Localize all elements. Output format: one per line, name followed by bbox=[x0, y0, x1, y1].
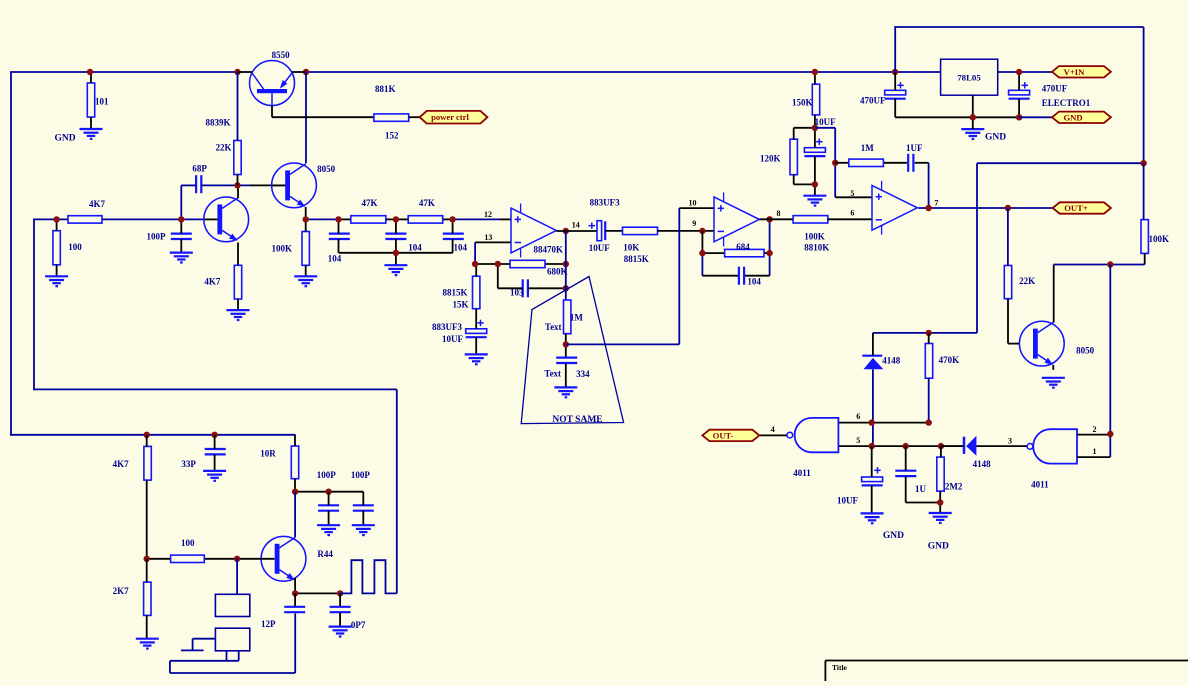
diode 4148 vertical bbox=[862, 333, 901, 446]
ground 2M2 bbox=[928, 513, 952, 552]
pin 1 label bbox=[1093, 447, 1097, 456]
svg-text:10R: 10R bbox=[260, 448, 276, 458]
resistor 47K first bbox=[351, 198, 386, 223]
svg-text:150K: 150K bbox=[792, 97, 813, 107]
svg-text:5: 5 bbox=[856, 436, 860, 445]
svg-text:8050: 8050 bbox=[317, 164, 336, 174]
svg-text:103: 103 bbox=[510, 288, 524, 298]
capacitor 100P osc first bbox=[317, 470, 339, 525]
junction dots regulator bbox=[1016, 69, 1022, 75]
wire U2 feedback bbox=[702, 219, 769, 275]
wire pin6 row bbox=[838, 422, 928, 424]
svg-text:8050: 8050 bbox=[1076, 346, 1095, 356]
text 8839K bbox=[206, 118, 231, 128]
capacitor 103 bbox=[498, 264, 566, 298]
wire 100K to pin6 bbox=[828, 218, 872, 220]
svg-text:8550: 8550 bbox=[272, 50, 291, 60]
pin 4 label bbox=[771, 425, 775, 434]
svg-text:88470K: 88470K bbox=[534, 245, 564, 255]
svg-text:1M: 1M bbox=[861, 143, 875, 153]
svg-text:4K7: 4K7 bbox=[113, 459, 130, 469]
junction dots collector row osc bbox=[292, 489, 298, 495]
pin 13 wire bbox=[475, 242, 511, 264]
wire 104 bottom bus bbox=[339, 252, 453, 254]
pin 3 label bbox=[1008, 437, 1012, 446]
capacitor 1U bbox=[895, 446, 940, 502]
text 10UF node bbox=[815, 117, 836, 127]
capacitor 334 bbox=[544, 358, 590, 388]
wire feedback row 680K bbox=[475, 263, 566, 265]
resistor 10K 8815K bbox=[623, 227, 658, 264]
junction dot 2M2 bottom bbox=[937, 499, 943, 505]
wire NAND1 output bbox=[760, 434, 787, 436]
power port flag power ctrl bbox=[420, 111, 488, 124]
wire 8050b collector row bbox=[1054, 265, 1145, 323]
transistor 8550 PNP bbox=[250, 50, 295, 117]
ground 8050b bbox=[1042, 378, 1065, 388]
junction dots 120K node bbox=[812, 125, 818, 131]
wire NAND2 feedback vertical bbox=[1109, 265, 1111, 435]
capacitor 104 U2 feedback bbox=[739, 267, 762, 287]
svg-text:470UF: 470UF bbox=[860, 95, 886, 105]
capacitor 470UF first electrolytic bbox=[860, 72, 906, 117]
wire 100 row bbox=[147, 558, 275, 560]
svg-text:14: 14 bbox=[572, 221, 580, 230]
junction dot base node 22K bbox=[234, 182, 240, 188]
svg-text:883UF3: 883UF3 bbox=[590, 198, 620, 208]
wire 78L05 out to V+IN bbox=[998, 71, 1053, 73]
svg-text:3: 3 bbox=[1008, 437, 1012, 446]
svg-text:22K: 22K bbox=[216, 143, 232, 153]
wire input row bbox=[33, 218, 217, 220]
svg-text:4K7: 4K7 bbox=[89, 199, 106, 209]
svg-text:10UF: 10UF bbox=[589, 243, 610, 253]
svg-text:100K: 100K bbox=[804, 232, 825, 242]
text 4011 second bbox=[1031, 480, 1049, 490]
svg-text:8: 8 bbox=[777, 209, 781, 218]
svg-text:OUT+: OUT+ bbox=[1064, 203, 1088, 213]
svg-text:47K: 47K bbox=[362, 198, 378, 208]
capacitor 104 third bbox=[443, 219, 468, 252]
svg-text:12P: 12P bbox=[261, 619, 276, 629]
svg-text:68P: 68P bbox=[192, 164, 207, 174]
wire oscillator output drop bbox=[396, 389, 398, 593]
transistor 8050 second bbox=[1019, 321, 1094, 366]
capacitor 10UF 120K electrolytic bbox=[804, 128, 825, 196]
svg-text:120K: 120K bbox=[760, 154, 781, 164]
resistor 10R bbox=[260, 435, 298, 492]
capacitor 68P bbox=[181, 164, 285, 220]
svg-text:7: 7 bbox=[934, 199, 938, 208]
pin stubs 8550 bbox=[238, 71, 307, 73]
pin 5 NAND label bbox=[856, 436, 860, 445]
svg-text:10UF: 10UF bbox=[837, 496, 858, 506]
wire top loop bbox=[894, 27, 1143, 163]
svg-text:OUT-: OUT- bbox=[713, 430, 734, 440]
junction dots osc supply row bbox=[144, 432, 150, 438]
svg-text:2M2: 2M2 bbox=[945, 482, 963, 492]
wire square wave bbox=[340, 560, 397, 593]
junction dot 470K top bbox=[926, 330, 932, 336]
resistor 150K bbox=[792, 72, 820, 128]
junction dots U2 bbox=[699, 250, 705, 256]
svg-text:10: 10 bbox=[689, 199, 697, 208]
svg-text:Title: Title bbox=[832, 663, 848, 672]
svg-text:4011: 4011 bbox=[793, 468, 811, 478]
wire crystal stub bbox=[181, 639, 215, 651]
svg-text:4148: 4148 bbox=[882, 356, 901, 366]
svg-text:GND: GND bbox=[883, 531, 904, 541]
svg-text:334: 334 bbox=[576, 369, 590, 379]
pin 8050b emitter bbox=[1052, 365, 1054, 370]
svg-text:10UF: 10UF bbox=[442, 334, 463, 344]
junction dots pin6 row bbox=[869, 419, 875, 425]
resistor 4K7 osc bbox=[113, 435, 152, 559]
svg-text:104: 104 bbox=[328, 254, 342, 264]
resistor 8815K 15K bbox=[443, 264, 480, 321]
svg-text:470UF: 470UF bbox=[1042, 84, 1068, 94]
svg-text:9: 9 bbox=[692, 219, 696, 228]
power port flag V+IN bbox=[1052, 66, 1111, 77]
NAND gate 4011 first bbox=[787, 418, 839, 452]
svg-text:1M: 1M bbox=[570, 313, 584, 323]
ground under 10UF bbox=[465, 354, 488, 364]
pin 14 label bbox=[572, 221, 580, 230]
wire input branch vertical bbox=[33, 219, 397, 389]
wire to op-amp2 pin10 bbox=[566, 208, 714, 344]
junction dots U1 feedback bbox=[472, 261, 478, 267]
polygon NOT SAME annotation bbox=[521, 277, 623, 426]
svg-text:152: 152 bbox=[385, 131, 399, 141]
svg-text:1: 1 bbox=[1093, 447, 1097, 456]
ground under 101 bbox=[80, 129, 103, 139]
svg-text:33P: 33P bbox=[181, 459, 196, 469]
pin 10 label bbox=[689, 199, 697, 208]
capacitor 470UF ELECTRO1 electrolytic bbox=[1009, 72, 1091, 117]
svg-text:8839K: 8839K bbox=[206, 118, 231, 128]
capacitor 33P bbox=[181, 435, 225, 471]
resistor 152 (881K) bbox=[374, 84, 409, 141]
wire 8550 base row bbox=[272, 116, 374, 118]
text GND top-left bbox=[55, 133, 76, 143]
NAND gate 4011 second bbox=[1027, 429, 1077, 463]
junction dot collector row bbox=[1107, 261, 1113, 267]
pin 12 label bbox=[484, 210, 492, 219]
svg-text:78L05: 78L05 bbox=[957, 73, 981, 83]
capacitor 104 second bbox=[385, 219, 422, 265]
wire top supply rail bbox=[10, 71, 940, 73]
wire cap to 10K bbox=[605, 230, 622, 232]
svg-text:8815K: 8815K bbox=[443, 288, 468, 298]
transistor R44 bbox=[261, 536, 333, 581]
resistor 100 shunt bbox=[53, 219, 82, 276]
resistor 1M vertical bbox=[545, 300, 584, 334]
junction dots 100 row bbox=[144, 556, 150, 562]
ground 0P7 bbox=[329, 627, 352, 637]
svg-text:104: 104 bbox=[747, 277, 761, 287]
svg-text:GND: GND bbox=[928, 542, 949, 552]
wire 8550 collector down bbox=[305, 72, 307, 163]
svg-text:881K: 881K bbox=[375, 84, 396, 94]
ground 33P bbox=[203, 471, 226, 481]
svg-text:100P: 100P bbox=[147, 231, 167, 241]
svg-text:2: 2 bbox=[1093, 425, 1097, 434]
svg-text:680K: 680K bbox=[547, 267, 568, 277]
svg-text:104: 104 bbox=[454, 243, 468, 253]
resistor 100K right bbox=[1141, 163, 1169, 264]
resistor 101 top-left bbox=[87, 72, 109, 129]
capacitor 104 first bbox=[328, 219, 350, 263]
text 4011 first bbox=[793, 468, 811, 478]
wire filter row bbox=[306, 218, 511, 220]
capacitor 100P input bbox=[147, 219, 192, 252]
power port flag OUT- bbox=[702, 430, 759, 441]
wire left feedback drop bbox=[10, 72, 296, 435]
ground 120K node bbox=[803, 196, 826, 206]
svg-text:101: 101 bbox=[95, 97, 109, 107]
resistor 2K7 bbox=[113, 559, 151, 639]
svg-text:10UF: 10UF bbox=[815, 117, 836, 127]
ground 78L05 bbox=[961, 117, 1006, 142]
pin 8 label bbox=[777, 209, 781, 218]
resistor 2M2 bbox=[937, 446, 963, 513]
svg-text:6: 6 bbox=[856, 412, 860, 421]
resistor 470K bbox=[925, 333, 959, 423]
power port flag OUT+ bbox=[1053, 202, 1111, 213]
title block bbox=[825, 661, 1188, 682]
junction dots filter row bbox=[303, 216, 309, 222]
power port flag GND bbox=[1052, 112, 1111, 123]
op-amp U1 88470K bbox=[511, 204, 563, 258]
resistor 100 osc bbox=[171, 538, 205, 563]
capacitor 10UF NAND electrolytic bbox=[837, 446, 883, 513]
resistor 1M U3 bbox=[849, 143, 884, 167]
resistor 100K 8810K bbox=[793, 216, 829, 253]
ground filter bbox=[384, 265, 407, 275]
capacitor 0P7 bbox=[330, 593, 366, 630]
ground under 334 bbox=[554, 387, 577, 397]
transistor 8050 first bbox=[272, 163, 317, 208]
svg-text:100K: 100K bbox=[1149, 234, 1170, 244]
capacitor 883UF3 10UF electrolytic bbox=[432, 320, 487, 355]
ground 2K7 bbox=[136, 639, 159, 649]
junction dot input node bbox=[178, 216, 184, 222]
wire 1M row bbox=[835, 163, 928, 208]
pin 78L05 ground bbox=[972, 95, 974, 117]
pin 5 label bbox=[850, 189, 854, 198]
diode 4148 horizontal bbox=[941, 436, 1027, 469]
svg-text:6: 6 bbox=[850, 208, 854, 217]
svg-text:2K7: 2K7 bbox=[113, 586, 130, 596]
svg-text:883UF3: 883UF3 bbox=[432, 322, 462, 332]
transistor Q npn input bbox=[204, 185, 249, 265]
capacitor 12P bbox=[261, 593, 305, 629]
ground 100P second bbox=[352, 525, 375, 535]
svg-text:NOT SAME: NOT SAME bbox=[552, 415, 602, 425]
ground 10UF NAND bbox=[861, 513, 905, 541]
wire U1 output bbox=[556, 231, 597, 300]
svg-text:4K7: 4K7 bbox=[204, 277, 221, 287]
junction dot 1M bottom bbox=[563, 341, 569, 347]
svg-text:22K: 22K bbox=[1019, 276, 1035, 286]
wire U3 pin5 chain bbox=[815, 128, 872, 198]
wire OUT+ to NAND branch bbox=[977, 163, 1144, 333]
wire U2 output bbox=[759, 218, 793, 220]
wire 10K to pin9 bbox=[658, 230, 715, 232]
ground under 100P bbox=[170, 253, 193, 263]
svg-text:GND: GND bbox=[1063, 112, 1082, 122]
pin 8050 emitter to node bbox=[305, 207, 307, 219]
wire 470K diode row bbox=[873, 332, 977, 334]
svg-text:104: 104 bbox=[408, 243, 422, 253]
svg-text:GND: GND bbox=[985, 133, 1006, 143]
pin 13 label bbox=[484, 233, 492, 242]
svg-text:12: 12 bbox=[484, 210, 492, 219]
wire NAND2 pins bbox=[1077, 434, 1110, 457]
wire osc collector drop bbox=[294, 492, 296, 537]
svg-text:8815K: 8815K bbox=[624, 254, 649, 264]
svg-text:13: 13 bbox=[484, 233, 492, 242]
resistor 4K7 input bbox=[68, 199, 106, 223]
junction dots top rail bbox=[87, 69, 93, 75]
svg-text:100: 100 bbox=[181, 538, 195, 548]
svg-text:4: 4 bbox=[771, 425, 775, 434]
resistor 684 bbox=[725, 242, 764, 257]
junction dots pin5 row bbox=[869, 443, 875, 449]
resistor 120K bbox=[760, 128, 815, 185]
svg-text:100K: 100K bbox=[272, 244, 293, 254]
svg-text:100: 100 bbox=[68, 242, 82, 252]
svg-text:1UF: 1UF bbox=[906, 143, 923, 153]
crystal box upper bbox=[215, 594, 249, 616]
svg-text:4011: 4011 bbox=[1031, 480, 1049, 490]
ground under 100K bbox=[294, 276, 317, 286]
wire U3 output bbox=[918, 207, 1053, 209]
svg-text:470K: 470K bbox=[939, 355, 960, 365]
crystal box lower bbox=[215, 628, 249, 651]
svg-text:R44: R44 bbox=[317, 549, 333, 559]
svg-text:5: 5 bbox=[850, 189, 854, 198]
pin 7 label bbox=[934, 199, 938, 208]
junction dot pin2 bbox=[1107, 431, 1113, 437]
ground 100P first bbox=[317, 525, 340, 535]
svg-text:0P7: 0P7 bbox=[351, 620, 366, 630]
capacitor 100P osc second bbox=[351, 470, 374, 525]
junction dots emitter row bbox=[292, 590, 298, 596]
wire 1M to 334 node bbox=[565, 334, 567, 358]
pin 9 label bbox=[692, 219, 696, 228]
junction dots output bbox=[925, 205, 931, 211]
wire to power ctrl flag bbox=[409, 116, 421, 118]
svg-text:power ctrl: power ctrl bbox=[431, 112, 469, 122]
pin 2 label bbox=[1093, 425, 1097, 434]
resistor 100K 8050 emitter bbox=[272, 219, 310, 276]
svg-text:8810K: 8810K bbox=[804, 242, 829, 252]
svg-text:GND: GND bbox=[55, 133, 76, 143]
resistor 4K7 emitter bbox=[204, 265, 241, 310]
wire to GND flag bbox=[1019, 116, 1053, 118]
junction dot pin9 bbox=[699, 228, 705, 234]
svg-text:V+IN: V+IN bbox=[1064, 67, 1085, 77]
wire emitter row osc bbox=[295, 578, 340, 593]
resistor 47K second bbox=[408, 198, 443, 223]
svg-text:4148: 4148 bbox=[973, 459, 992, 469]
junction dot right rail bbox=[1140, 160, 1146, 166]
svg-text:10K: 10K bbox=[623, 243, 639, 253]
resistor 680K bbox=[510, 260, 568, 276]
capacitor 1UF bbox=[906, 143, 923, 172]
wire crystal bottom bbox=[170, 614, 295, 674]
op-amp U2 bbox=[714, 192, 759, 246]
78L05 regulator bbox=[941, 59, 998, 95]
wire pin5 row bbox=[838, 445, 963, 447]
svg-text:ELECTRO1: ELECTRO1 bbox=[1042, 98, 1091, 108]
svg-text:100P: 100P bbox=[351, 470, 371, 480]
resistor 22K bbox=[216, 72, 242, 185]
resistor 22K right bbox=[1004, 208, 1035, 344]
wire crystal drop bbox=[236, 559, 238, 595]
op-amp U3 bbox=[872, 181, 917, 235]
wire ground bus regulator bbox=[895, 116, 1019, 118]
ground under 100 bbox=[45, 276, 68, 286]
svg-text:100P: 100P bbox=[317, 470, 337, 480]
svg-text:684: 684 bbox=[736, 242, 750, 252]
svg-text:Text: Text bbox=[544, 369, 561, 379]
capacitor 10UF 883UF3 output electrolytic bbox=[589, 198, 620, 253]
junction dot 1M tee bbox=[832, 160, 838, 166]
svg-text:1U: 1U bbox=[915, 484, 927, 494]
junction dots supply right bbox=[812, 69, 818, 75]
pin 6 label bbox=[850, 208, 854, 217]
pin 6 NAND label bbox=[856, 412, 860, 421]
svg-text:Text: Text bbox=[545, 322, 562, 332]
ground under 4K7 bbox=[227, 310, 250, 320]
svg-text:15K: 15K bbox=[453, 300, 469, 310]
wire osc collector row bbox=[295, 491, 363, 493]
svg-text:47K: 47K bbox=[419, 198, 435, 208]
